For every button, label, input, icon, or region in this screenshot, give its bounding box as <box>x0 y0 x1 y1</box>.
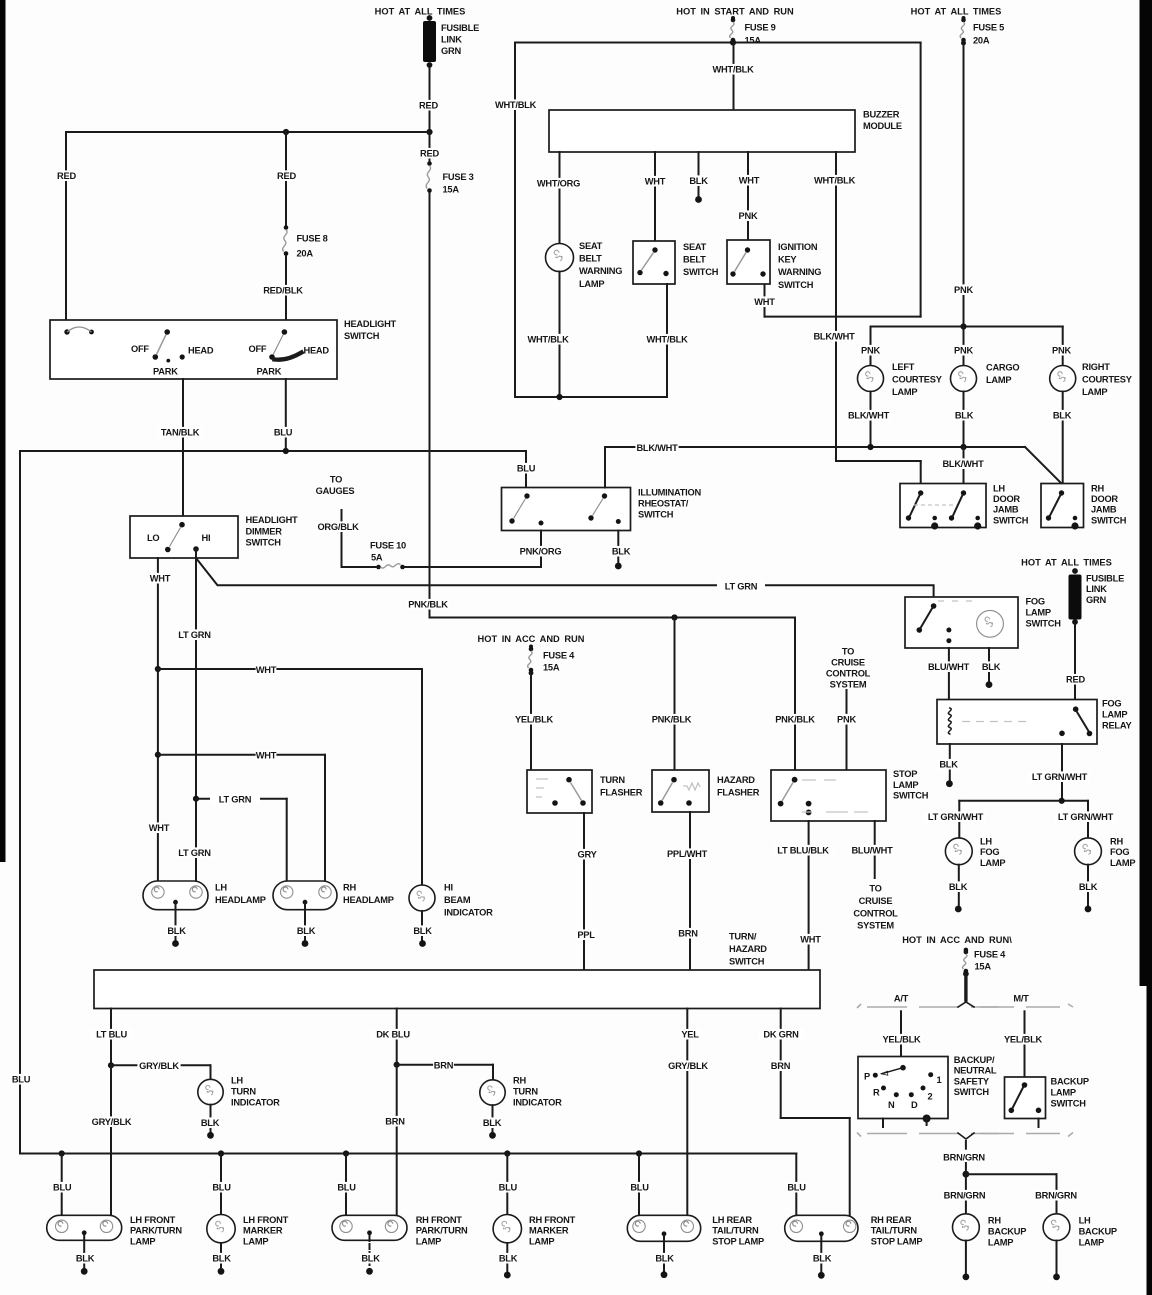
wire LT GRN branch to RH headlamp <box>196 794 287 881</box>
svg-text:HEADLAMP: HEADLAMP <box>343 895 394 905</box>
svg-text:WHT: WHT <box>645 177 666 187</box>
svg-text:PARK/TURN: PARK/TURN <box>130 1226 182 1236</box>
svg-text:D: D <box>911 1100 918 1110</box>
svg-text:FLASHER: FLASHER <box>600 788 643 798</box>
svg-text:RED: RED <box>420 149 439 159</box>
node fuse 9 junction on top rail <box>730 39 736 45</box>
svg-text:LAMP: LAMP <box>579 279 604 289</box>
svg-text:LH: LH <box>993 484 1005 494</box>
right courtesy lamp <box>1050 362 1133 397</box>
svg-text:PNK: PNK <box>954 285 973 295</box>
RH front park/turn lamp <box>332 1215 468 1246</box>
wire PNK drop to left courtesy lamp <box>860 327 881 366</box>
svg-text:LT GRN: LT GRN <box>725 582 758 592</box>
svg-text:LAMP: LAMP <box>1051 1088 1076 1098</box>
svg-text:BRN: BRN <box>434 1061 454 1071</box>
svg-text:BLK/WHT: BLK/WHT <box>636 443 678 453</box>
wire LT GRN/WHT relay output <box>1029 744 1091 801</box>
LH turn indicator lamp <box>198 1076 280 1108</box>
svg-text:P: P <box>864 1072 870 1082</box>
wire GRY/BLK branch to LH turn indicator <box>111 1060 211 1079</box>
svg-text:BACKUP: BACKUP <box>1079 1227 1117 1237</box>
svg-text:WHT: WHT <box>256 665 277 675</box>
wire BLK hi beam indicator ground <box>412 911 433 947</box>
svg-text:BACKUP: BACKUP <box>1051 1077 1089 1087</box>
svg-text:KEY: KEY <box>778 255 797 265</box>
svg-text:LT GRN/WHT: LT GRN/WHT <box>1058 812 1114 822</box>
header HOT IN ACC AND RUN (fuse 4) <box>478 634 585 644</box>
svg-text:2: 2 <box>928 1092 933 1102</box>
wire LT GRN/WHT drop to LH fog lamp <box>925 801 987 838</box>
node PNK/BLK branch to hazard flasher <box>671 614 677 620</box>
svg-text:IGNITION: IGNITION <box>778 242 818 252</box>
svg-text:BLK: BLK <box>413 926 432 936</box>
svg-text:SWITCH: SWITCH <box>993 515 1029 525</box>
svg-text:TAIL/TURN: TAIL/TURN <box>871 1226 918 1236</box>
svg-text:SYSTEM: SYSTEM <box>830 680 867 690</box>
svg-text:HOT AT ALL TIMES: HOT AT ALL TIMES <box>375 7 466 17</box>
node left courtesy return junction <box>867 444 873 450</box>
svg-text:LAMP: LAMP <box>893 780 918 790</box>
svg-text:LH: LH <box>215 883 227 893</box>
wire PNK/BLK to hazard flasher <box>650 618 693 771</box>
svg-text:JAMB: JAMB <box>993 505 1019 515</box>
svg-text:YEL/BLK: YEL/BLK <box>515 715 554 725</box>
svg-text:INDICATOR: INDICATOR <box>444 908 493 918</box>
svg-text:HOT IN START AND RUN: HOT IN START AND RUN <box>676 7 794 17</box>
node cargo return junction <box>960 444 966 450</box>
node PNK rail junction <box>960 323 966 329</box>
svg-text:BLK/WHT: BLK/WHT <box>848 411 890 421</box>
svg-text:PARK: PARK <box>153 367 178 377</box>
svg-text:RED/BLK: RED/BLK <box>263 286 303 296</box>
wire WHT-PNK buzzer to ignition key warning switch <box>738 152 760 240</box>
svg-text:20A: 20A <box>973 36 990 46</box>
svg-text:LT GRN/WHT: LT GRN/WHT <box>928 812 984 822</box>
svg-text:BLU/WHT: BLU/WHT <box>851 846 893 856</box>
wire DK GRN-BRN turn/hazard output to RH rear lamp <box>758 1009 850 1216</box>
label TURN/HAZARD SWITCH <box>729 932 767 967</box>
svg-text:GRY: GRY <box>577 850 597 860</box>
svg-text:1: 1 <box>937 1075 942 1085</box>
svg-text:BRN: BRN <box>678 929 698 939</box>
svg-text:FUSIBLE: FUSIBLE <box>441 23 479 33</box>
svg-text:TO: TO <box>330 475 342 485</box>
wire PNK drop to cargo lamp <box>953 327 974 366</box>
wire RED left branch down to headlight switch <box>56 132 77 320</box>
svg-text:RH: RH <box>343 883 356 893</box>
svg-text:LAMP: LAMP <box>1079 1238 1104 1248</box>
svg-text:RHEOSTAT/: RHEOSTAT/ <box>638 499 689 509</box>
svg-text:ILLUMINATION: ILLUMINATION <box>638 488 701 498</box>
LH backup lamp <box>1043 1214 1117 1248</box>
svg-text:PNK/BLK: PNK/BLK <box>408 600 448 610</box>
wire PNK from fuse 5 down to courtesy lamp rail <box>953 43 974 327</box>
svg-text:LAMP: LAMP <box>1082 387 1107 397</box>
RH door jamb switch <box>1041 484 1127 530</box>
wire PPL/WHT-BRN hazard flasher to turn/hazard switch <box>665 812 708 970</box>
svg-text:PARK/TURN: PARK/TURN <box>416 1226 468 1236</box>
svg-text:LH: LH <box>980 837 992 847</box>
header HOT AT ALL TIMES (fog) <box>1021 558 1112 568</box>
svg-text:BLU: BLU <box>337 1183 356 1193</box>
svg-text:LH REAR: LH REAR <box>712 1215 752 1225</box>
wire BLK RH rear lamp ground <box>812 1237 833 1279</box>
svg-text:GAUGES: GAUGES <box>316 486 355 496</box>
svg-text:LAMP: LAMP <box>1110 858 1135 868</box>
svg-text:PNK/BLK: PNK/BLK <box>775 715 815 725</box>
svg-text:OFF: OFF <box>249 344 267 354</box>
wire BLU drop to LH front marker lamp <box>211 1154 232 1216</box>
svg-text:20A: 20A <box>297 249 314 259</box>
wire BLK LH turn indicator ground <box>200 1105 221 1139</box>
svg-text:SEAT: SEAT <box>579 241 603 251</box>
svg-text:SWITCH: SWITCH <box>683 267 719 277</box>
svg-text:LH: LH <box>1079 1216 1091 1226</box>
svg-text:FUSIBLE: FUSIBLE <box>1086 574 1124 584</box>
svg-text:BRN: BRN <box>385 1117 405 1127</box>
svg-text:PARK: PARK <box>257 367 282 377</box>
svg-text:SWITCH: SWITCH <box>893 791 929 801</box>
seat belt warning lamp <box>546 241 623 289</box>
svg-text:BLK: BLK <box>201 1118 220 1128</box>
svg-text:DK GRN: DK GRN <box>763 1030 799 1040</box>
svg-text:BLK: BLK <box>212 1254 231 1264</box>
svg-text:RED: RED <box>57 171 76 181</box>
fog lamp relay <box>937 699 1132 745</box>
wire WHT branch to hi-beam indicator <box>158 664 422 885</box>
svg-text:BLK/WHT: BLK/WHT <box>813 332 855 342</box>
svg-text:GRY/BLK: GRY/BLK <box>92 1117 132 1127</box>
node BLU bus junction LH rear <box>636 1150 642 1156</box>
svg-text:STOP: STOP <box>893 769 917 779</box>
svg-text:NEUTRAL: NEUTRAL <box>954 1066 997 1076</box>
RH headlamp <box>273 881 394 910</box>
svg-text:RIGHT: RIGHT <box>1082 362 1110 372</box>
header HOT IN ACC AND RUN (backup) <box>902 935 1012 945</box>
svg-text:LT GRN: LT GRN <box>178 630 211 640</box>
svg-text:PNK/ORG: PNK/ORG <box>520 547 562 557</box>
wire PNK/BLK from fuse 3 to flashers and stop lamp switch <box>406 193 816 770</box>
svg-text:GRN: GRN <box>441 46 461 56</box>
wire YEL-GRY/BLK turn/hazard output to LH rear lamp <box>666 1009 709 1216</box>
wire YEL/BLK A/T branch to backup/neutral safety switch <box>880 1011 923 1056</box>
svg-text:PPL/WHT: PPL/WHT <box>667 849 708 859</box>
svg-text:LAMP: LAMP <box>988 1238 1013 1248</box>
svg-text:TO: TO <box>842 647 854 657</box>
svg-text:BACKUP: BACKUP <box>988 1227 1026 1237</box>
wire BLK buzzer ground stub <box>688 152 709 203</box>
illumination rheostat/switch <box>502 488 702 531</box>
svg-text:HAZARD: HAZARD <box>717 775 755 785</box>
svg-text:MARKER: MARKER <box>243 1226 283 1236</box>
svg-text:LAMP: LAMP <box>416 1236 441 1246</box>
svg-text:HOT IN ACC AND RUN\: HOT IN ACC AND RUN\ <box>902 935 1012 945</box>
wire BLU front/rear park lamp bus <box>20 1154 807 1216</box>
node BLU junction at park output <box>283 448 289 454</box>
svg-text:TURN: TURN <box>600 775 625 785</box>
wire BLK RH turn indicator ground <box>482 1105 503 1139</box>
wire BLU long left drop to front lamp bus <box>11 451 32 1154</box>
node BLU bus junction RH front park <box>343 1150 349 1156</box>
wire WHT dimmer low-beam output to LH headlamp <box>149 558 171 881</box>
buzzer module <box>549 110 902 153</box>
node BLU bus junction LH front park <box>59 1150 65 1156</box>
svg-text:RH: RH <box>513 1076 526 1086</box>
label A/T <box>894 994 909 1004</box>
wire WHT/BLK loop top rail <box>515 42 921 44</box>
wire WHT/BLK buzzer feed from rail <box>711 43 754 111</box>
node seat belt return junction <box>556 394 562 400</box>
wire WHT buzzer to seat belt switch <box>645 152 666 241</box>
wire BRN/GRN drop to RH backup lamp <box>943 1174 986 1214</box>
connector boundary (dashed, transmission switches) <box>857 1002 1073 1139</box>
svg-text:LT GRN/WHT: LT GRN/WHT <box>1032 772 1088 782</box>
svg-text:BLK: BLK <box>813 1254 832 1264</box>
wire TAN/BLK headlight switch to dimmer switch <box>158 379 201 516</box>
svg-text:R: R <box>873 1088 880 1098</box>
svg-text:LAMP: LAMP <box>986 375 1011 385</box>
svg-text:WHT: WHT <box>800 935 821 945</box>
svg-text:RH REAR: RH REAR <box>871 1215 912 1225</box>
RH rear tail/turn stop lamp <box>785 1215 923 1246</box>
svg-text:COURTESY: COURTESY <box>1082 375 1133 385</box>
svg-text:15A: 15A <box>975 962 992 972</box>
RH backup lamp <box>953 1214 1027 1248</box>
svg-text:BELT: BELT <box>683 255 706 265</box>
svg-text:TAIL/TURN: TAIL/TURN <box>712 1226 759 1236</box>
LH front park/turn lamp <box>47 1215 183 1246</box>
svg-text:HI: HI <box>444 883 453 893</box>
svg-text:WHT: WHT <box>256 751 277 761</box>
wire BRN down to RH front park/turn lamp <box>385 1065 406 1216</box>
wire PNK cruise control to stop lamp switch <box>836 690 857 770</box>
svg-text:WHT/ORG: WHT/ORG <box>537 179 580 189</box>
svg-text:BLU: BLU <box>12 1075 31 1085</box>
svg-text:BRN/GRN: BRN/GRN <box>1035 1191 1077 1201</box>
label TO CRUISE CONTROL SYSTEM (lower) <box>853 884 898 931</box>
wire BRN/GRN rail to LH backup lamp <box>966 1174 1078 1214</box>
wire WHT branch to RH headlamp <box>158 750 325 881</box>
wire BLU headlight switch park output <box>273 379 294 451</box>
svg-text:STOP LAMP: STOP LAMP <box>712 1236 764 1246</box>
wire BLK/WHT return rail to door jamb switches <box>605 442 1062 483</box>
svg-text:PNK: PNK <box>837 715 856 725</box>
node BRN/GRN junction <box>963 1171 970 1178</box>
stop lamp switch <box>771 769 929 821</box>
svg-text:WARNING: WARNING <box>579 266 622 276</box>
svg-text:TO: TO <box>869 884 881 894</box>
svg-text:LINK: LINK <box>441 35 462 45</box>
turn flasher <box>527 770 643 813</box>
svg-text:BLK/WHT: BLK/WHT <box>942 459 984 469</box>
svg-text:WHT: WHT <box>739 176 760 186</box>
node BLU bus junction RH front marker <box>504 1150 510 1156</box>
svg-text:HOT IN ACC AND RUN: HOT IN ACC AND RUN <box>478 634 585 644</box>
wire BLK RH front park/turn ground <box>360 1236 381 1275</box>
svg-text:SWITCH: SWITCH <box>954 1087 990 1097</box>
svg-text:DK BLU: DK BLU <box>376 1030 410 1040</box>
node WHT branch 2 <box>155 752 161 758</box>
wire BLU into illumination rheostat <box>516 451 537 488</box>
svg-text:FUSE 5: FUSE 5 <box>973 23 1004 33</box>
svg-text:INDICATOR: INDICATOR <box>231 1098 280 1108</box>
wire BLK RH front marker ground <box>498 1243 519 1278</box>
svg-text:BELT: BELT <box>579 254 602 264</box>
svg-text:HEAD: HEAD <box>304 346 330 356</box>
wire BLK/WHT from rheostat up to courtesy return rail <box>604 447 606 488</box>
LH rear tail/turn stop lamp <box>627 1215 764 1246</box>
svg-text:SWITCH: SWITCH <box>1026 619 1062 629</box>
backup/neutral safety switch <box>858 1055 997 1127</box>
wire WHT loop right side from ignition key switch <box>754 43 921 317</box>
svg-text:BLK: BLK <box>949 882 968 892</box>
wire WHT/BLK seat belt lamp return <box>526 272 569 398</box>
svg-text:GRN: GRN <box>1086 595 1106 605</box>
wire DK BLU turn/hazard output <box>370 1009 416 1065</box>
wire WHT/BLK seat belt switch return <box>645 284 688 397</box>
svg-text:PNK: PNK <box>739 211 758 221</box>
svg-text:RELAY: RELAY <box>1102 721 1132 731</box>
svg-text:FUSE 10: FUSE 10 <box>370 541 406 551</box>
wire RED horizontal bus to headlight switch branches <box>66 131 430 133</box>
fusible link GRN (fog) <box>1069 568 1125 625</box>
fog lamp switch <box>905 597 1061 649</box>
wire RED middle branch down to fuse 8 <box>276 132 297 226</box>
svg-text:WHT/BLK: WHT/BLK <box>712 65 754 75</box>
svg-text:COURTESY: COURTESY <box>892 375 943 385</box>
svg-text:LINK: LINK <box>1086 584 1107 594</box>
wire BLK RH headlamp ground <box>296 903 317 947</box>
svg-text:LT GRN: LT GRN <box>178 848 211 858</box>
svg-text:BLU: BLU <box>517 464 536 474</box>
svg-text:FUSE 4: FUSE 4 <box>974 950 1006 960</box>
wire PNK drop to right courtesy lamp <box>1051 327 1072 366</box>
wire BLK RH fog lamp ground <box>1078 865 1099 913</box>
svg-text:BLK: BLK <box>1079 882 1098 892</box>
wire BLK fog switch ground <box>981 648 1002 688</box>
svg-text:LAMP: LAMP <box>1026 608 1051 618</box>
svg-text:BLK: BLK <box>939 760 958 770</box>
svg-text:TURN/: TURN/ <box>729 932 757 942</box>
wire WHT/BLK return rail to loop left <box>515 396 667 398</box>
wire RED/BLK from fuse 8 to headlight switch <box>261 256 304 320</box>
node DK BLU / BRN junction <box>394 1062 400 1068</box>
svg-text:HEADLIGHT: HEADLIGHT <box>246 515 299 525</box>
svg-text:YEL: YEL <box>681 1030 699 1040</box>
svg-text:SWITCH: SWITCH <box>1051 1099 1087 1109</box>
svg-text:BLK: BLK <box>483 1118 502 1128</box>
svg-text:MARKER: MARKER <box>529 1226 569 1236</box>
svg-text:FOG: FOG <box>1110 847 1129 857</box>
svg-text:BRN/GRN: BRN/GRN <box>943 1153 985 1163</box>
wire BLK LH front marker ground <box>211 1243 232 1275</box>
svg-text:SWITCH: SWITCH <box>246 538 282 548</box>
wire BLK relay coil ground <box>938 744 959 787</box>
svg-text:STOP LAMP: STOP LAMP <box>871 1236 923 1246</box>
svg-text:BLK: BLK <box>1053 411 1072 421</box>
svg-text:5A: 5A <box>371 553 383 563</box>
svg-text:ORG/BLK: ORG/BLK <box>317 522 359 532</box>
svg-text:FOG: FOG <box>1026 597 1045 607</box>
svg-text:CONTROL: CONTROL <box>853 908 898 918</box>
wire BLK/WHT left courtesy lamp return <box>847 392 890 448</box>
wire BLK LH backup lamp ground <box>1053 1241 1060 1281</box>
wire LT GRN diagonal branch to fog lamp circuit <box>196 558 934 597</box>
svg-text:BLU: BLU <box>787 1183 806 1193</box>
label TO CRUISE CONTROL SYSTEM (upper) <box>826 647 871 690</box>
svg-text:LAMP: LAMP <box>1102 710 1127 720</box>
svg-text:BLK: BLK <box>76 1254 95 1264</box>
svg-text:LEFT: LEFT <box>892 362 915 372</box>
fusible link GRN (left) <box>423 15 479 68</box>
fuse F9 15A <box>730 16 776 46</box>
svg-text:CONTROL: CONTROL <box>826 669 871 679</box>
svg-text:LT GRN: LT GRN <box>219 795 252 805</box>
svg-text:JAMB: JAMB <box>1091 505 1117 515</box>
svg-text:BLU: BLU <box>212 1183 231 1193</box>
wire BLU drop to RH front marker lamp <box>497 1154 518 1216</box>
svg-text:15A: 15A <box>745 36 762 46</box>
svg-text:BLU: BLU <box>499 1183 518 1193</box>
header HOT IN START AND RUN <box>676 7 794 17</box>
headlight switch <box>50 319 397 379</box>
wire YEL/BLK fuse 4 into transmission connector <box>964 976 967 1000</box>
svg-text:FUSE 9: FUSE 9 <box>745 23 776 33</box>
wire GRY-PPL turn flasher to turn/hazard switch <box>576 813 598 970</box>
svg-text:LAMP: LAMP <box>130 1236 155 1246</box>
node RED distribution junction <box>426 129 432 135</box>
wire WHT/BLK buzzer output to door jamb switches <box>812 152 920 484</box>
svg-text:RED: RED <box>419 101 438 111</box>
svg-text:WHT: WHT <box>150 574 171 584</box>
svg-text:LAMP: LAMP <box>529 1236 554 1246</box>
svg-text:RED: RED <box>277 171 296 181</box>
LH door jamb switch <box>900 484 1029 530</box>
svg-text:BLK: BLK <box>655 1254 674 1264</box>
svg-text:BLK: BLK <box>361 1254 380 1264</box>
svg-text:LT BLU/BLK: LT BLU/BLK <box>777 846 829 856</box>
svg-text:CRUISE: CRUISE <box>859 896 893 906</box>
svg-text:LAMP: LAMP <box>243 1236 268 1246</box>
wire LT GRN dimmer high-beam output down <box>176 549 214 881</box>
svg-text:BLU: BLU <box>630 1183 649 1193</box>
svg-text:RH FRONT: RH FRONT <box>416 1215 463 1225</box>
wire YEL/BLK M/T branch to backup lamp switch <box>1001 1011 1044 1077</box>
svg-text:WHT/BLK: WHT/BLK <box>527 335 569 345</box>
svg-text:BLK: BLK <box>689 176 708 186</box>
svg-text:RED: RED <box>1066 675 1085 685</box>
svg-text:BLK: BLK <box>167 926 186 936</box>
svg-text:HEADLAMP: HEADLAMP <box>215 895 266 905</box>
svg-text:BLK: BLK <box>499 1254 518 1264</box>
node BLU bus junction LH front marker <box>218 1150 224 1156</box>
svg-text:GRY/BLK: GRY/BLK <box>139 1061 179 1071</box>
svg-text:CARGO: CARGO <box>986 363 1019 373</box>
seat belt switch <box>633 241 719 284</box>
svg-text:FOG: FOG <box>980 847 999 857</box>
svg-text:TURN: TURN <box>231 1087 256 1097</box>
svg-text:GRY/BLK: GRY/BLK <box>668 1061 708 1071</box>
page edge strip right <box>1140 0 1152 1295</box>
wire ORG/BLK to gauges <box>316 475 379 568</box>
wire RED fusible link to fog lamp relay <box>1065 624 1086 700</box>
headlight dimmer switch <box>130 515 298 558</box>
svg-text:DIMMER: DIMMER <box>246 526 283 536</box>
svg-text:SWITCH: SWITCH <box>344 331 380 341</box>
wire BLU drop to RH front park lamp <box>336 1154 357 1216</box>
wire BLU drop to LH rear lamp <box>629 1154 650 1216</box>
